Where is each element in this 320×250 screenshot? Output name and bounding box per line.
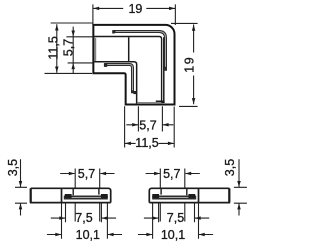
- 3,5 arrows: [237, 181, 241, 187]
- right dim 19: dimension line: [193, 25, 195, 105]
- 3,5 arrows: [19, 181, 23, 187]
- svg-text:10,1: 10,1: [161, 228, 185, 242]
- top 19 right arrow: [169, 7, 175, 10]
- left 11,5 top arrow: [55, 25, 59, 31]
- bar outline: [149, 188, 229, 202]
- joint line: [61, 188, 63, 202]
- joint line: [198, 188, 200, 202]
- svg-text:5,7: 5,7: [78, 167, 95, 181]
- bottom 11,5 right arrow: [168, 142, 174, 146]
- dims of left section: [15, 159, 122, 239]
- dark blocks left section: [65, 194, 72, 198]
- 10,1 ext lines: [153, 204, 199, 239]
- right 19 top arrow: [192, 25, 196, 31]
- 10,1 arrows: [146, 233, 152, 237]
- arrowheads of top drawing: [55, 7, 195, 146]
- 5,7 ext lines above bar: [75, 169, 100, 188]
- svg-text:11,5: 11,5: [46, 36, 60, 59]
- bottom 5,7 right outside arrow: [163, 123, 169, 127]
- B2 bottom hook: [133, 91, 137, 94]
- gray pocket floor at left opening: [94, 38, 96, 61]
- left dim 11,5: dimension line: [56, 24, 58, 73]
- svg-text:10,1: 10,1: [76, 228, 100, 242]
- gray band left section: [64, 196, 108, 200]
- 10,1 stubs: [47, 234, 122, 236]
- slot wall verticals: [161, 189, 187, 196]
- 3,5 ext lines: [234, 187, 247, 203]
- svg-text:5,7: 5,7: [163, 167, 180, 181]
- left 11,5 bottom arrow: [55, 67, 59, 73]
- svg-text:5,7: 5,7: [61, 39, 75, 56]
- left dim 5,7: dimension line with outside stubs: [72, 27, 74, 74]
- svg-text:19: 19: [128, 2, 142, 16]
- 5,7 ext lines below bar: [160, 204, 185, 222]
- 5,7 stubs: [146, 173, 200, 175]
- right dim 19: extension lines: [171, 23, 198, 106]
- svg-text:7,5: 7,5: [75, 211, 92, 225]
- bottom dim 11,5: dimension line: [125, 142, 175, 144]
- dimension lines of top drawing: [45, 4, 198, 147]
- inner step wall line L2: [93, 62, 137, 104]
- pocket wall outer edge V2: [163, 37, 165, 103]
- left 5,7 bottom outside arrow: [71, 63, 75, 69]
- left 5,7 top outside arrow: [71, 31, 75, 37]
- gray clip band B2 (inner, along step walls): [104, 65, 132, 94]
- svg-text:5,7: 5,7: [139, 119, 156, 133]
- svg-text:3,5: 3,5: [6, 159, 20, 176]
- B2 left end cap: [104, 63, 107, 67]
- 7,5 ext lines: [159, 204, 195, 223]
- 5,7 stubs: [60, 173, 114, 175]
- left bar end cap reinforcement: [30, 188, 32, 202]
- 10,1 arrows: [55, 233, 61, 237]
- 5,7 ext lines below bar: [75, 204, 100, 222]
- 3,5 stubs: [20, 159, 22, 215]
- B1 bottom foot: [156, 101, 165, 104]
- dark blocks right section: [188, 194, 195, 198]
- 10,1 stubs: [138, 234, 213, 236]
- right bar end cap reinforcement: [228, 188, 230, 202]
- right 19 bottom arrow: [192, 98, 196, 104]
- 10,1 ext lines: [62, 204, 108, 239]
- gray band right section: [152, 196, 196, 200]
- 7,5 ext lines: [66, 204, 102, 223]
- left dim 11,5: extension lines: [45, 23, 93, 73]
- B1 left end cap: [112, 30, 115, 33]
- 7,5 stubs: [144, 217, 209, 219]
- dims of right section: [138, 159, 247, 239]
- 5,7 arrows: [154, 172, 160, 176]
- svg-text:7,5: 7,5: [167, 211, 184, 225]
- svg-text:11,5: 11,5: [135, 136, 158, 150]
- 7,5 arrows: [59, 216, 65, 220]
- top 19 left arrow: [93, 7, 99, 10]
- bottom 5,7 left outside arrow: [132, 123, 138, 127]
- inner wall line L1 (top + right inner surface): [93, 37, 162, 103]
- outer contour of L-shaped corner piece: [93, 25, 174, 105]
- dimension texts of top drawing: [46, 2, 196, 150]
- svg-text:3,5: 3,5: [223, 159, 237, 176]
- pocket end wall L3 (horizontal arm): [128, 37, 130, 62]
- left dim 5,7: extension lines: [66, 37, 92, 63]
- bottom dim 11,5: extension lines: [125, 106, 175, 147]
- 7,5 stubs: [51, 217, 116, 219]
- 5,7 arrows: [69, 172, 75, 176]
- 3,5 ext lines: [15, 187, 27, 203]
- svg-text:19: 19: [182, 56, 196, 73]
- gray clip band B1 (outer, along top and right walls): [113, 32, 166, 71]
- 3,5 stubs: [238, 159, 240, 215]
- slot wall verticals: [73, 189, 99, 196]
- top dim 19: dimension line: [93, 7, 175, 9]
- gray pocket floor at bottom opening: [138, 102, 162, 104]
- bottom dim 5,7: extension lines: [138, 106, 162, 131]
- bottom 11,5 left arrow: [125, 142, 131, 146]
- 5,7 ext lines above bar: [160, 169, 185, 188]
- bar outline: [31, 188, 111, 202]
- bottom dim 5,7: outside stubs: [126, 124, 173, 126]
- top dim 19: extension lines: [93, 4, 175, 25]
- 7,5 arrows: [152, 216, 158, 220]
